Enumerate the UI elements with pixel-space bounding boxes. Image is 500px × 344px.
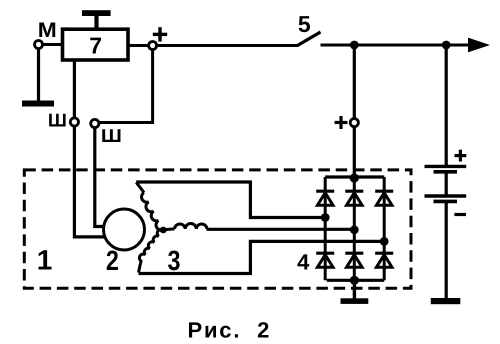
wire Sh right to plus rail xyxy=(99,50,153,123)
diode VD5 (bottom row) xyxy=(345,252,363,255)
wire rectifier to ground xyxy=(353,280,356,299)
junction bus to rectifier xyxy=(350,41,359,50)
diode VD2 (top row) xyxy=(345,190,363,193)
diode VD4 (bottom row) xyxy=(316,252,334,255)
wire battery to ground xyxy=(445,203,448,299)
regulator box 7 xyxy=(63,29,129,60)
stator winding phase B (middle) xyxy=(163,227,174,231)
wire between battery cells xyxy=(445,174,448,196)
rectifier top rail xyxy=(325,175,384,178)
diode VD1 (top row) xyxy=(316,190,334,193)
label minus (battery) xyxy=(454,213,466,216)
label + (regulator) xyxy=(153,27,167,41)
rectifier column wire 3 xyxy=(383,177,386,280)
generator dashed box 1 xyxy=(24,170,411,288)
svg-text:2: 2 xyxy=(106,245,119,276)
rectifier column wire 1 xyxy=(324,177,327,280)
node phase A junction xyxy=(321,213,330,222)
ground battery xyxy=(431,298,461,304)
wire switch to arrow xyxy=(321,44,475,47)
stator star node xyxy=(160,227,167,234)
svg-text:Рис. 2: Рис. 2 xyxy=(188,318,272,343)
junction top rail xyxy=(350,173,359,182)
wire + terminal to switch xyxy=(157,44,298,47)
battery cell 1 short plate xyxy=(434,170,458,174)
wire Sh right to rotor brush xyxy=(95,128,104,227)
terminal + circle (regulator) xyxy=(149,42,157,50)
terminal Sh right circle xyxy=(91,119,99,127)
switch 5 blade xyxy=(297,32,321,46)
svg-text:М: М xyxy=(38,19,57,42)
wire phase A to rectifier xyxy=(136,182,325,218)
junction bottom rail xyxy=(350,276,359,285)
ground under M xyxy=(22,101,54,107)
svg-text:3: 3 xyxy=(168,245,181,276)
battery cell 2 short plate xyxy=(434,200,458,204)
wire terminal to rectifier rail xyxy=(353,127,356,177)
wire regulator Sh output xyxy=(73,60,76,118)
wire bus to battery xyxy=(445,45,448,165)
svg-text:Ш: Ш xyxy=(48,109,67,130)
ground rectifier xyxy=(341,298,369,304)
diode VD3 (top row) xyxy=(375,190,393,193)
rotor 2 circle xyxy=(104,209,145,250)
svg-text:Ш: Ш xyxy=(101,125,122,146)
svg-text:7: 7 xyxy=(89,32,102,58)
arrow output xyxy=(468,38,490,53)
terminal M circle xyxy=(35,41,43,49)
svg-text:4: 4 xyxy=(297,250,310,275)
terminal + circle (rectifier) xyxy=(350,119,358,127)
battery GB cell 1 long plate xyxy=(425,165,467,168)
rectifier column wire 2 xyxy=(353,177,356,280)
node phase C junction xyxy=(380,237,389,246)
wire M to ground xyxy=(37,49,40,102)
wire M terminal to box xyxy=(41,43,63,46)
stator winding phase A (top) xyxy=(136,182,144,192)
label + (rectifier) xyxy=(335,116,348,129)
wire phase C to rectifier xyxy=(139,241,385,273)
diode VD6 (bottom row) xyxy=(375,252,393,255)
junction bus to battery xyxy=(442,41,451,50)
terminal Sh left circle xyxy=(70,118,78,126)
wire box to + terminal xyxy=(128,44,149,47)
stator winding phase C (bottom) xyxy=(139,229,164,272)
chassis symbol above regulator xyxy=(82,10,111,28)
rectifier bottom rail xyxy=(327,279,385,282)
wire Sh left to rotor brush xyxy=(74,126,105,237)
wire bus to rectifier plus terminal xyxy=(353,45,356,118)
label + (battery) xyxy=(455,150,467,162)
svg-text:1: 1 xyxy=(37,245,53,276)
battery cell 2 long plate xyxy=(425,194,467,197)
wire phase B to rectifier xyxy=(207,228,355,231)
node phase B junction xyxy=(350,225,359,234)
svg-text:5: 5 xyxy=(298,11,311,37)
